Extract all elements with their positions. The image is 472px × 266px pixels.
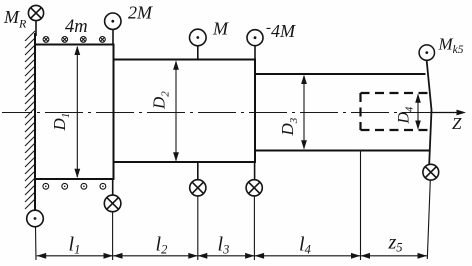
moment Mk5 symbol (circle-dot) xyxy=(419,45,434,60)
wire below -4M cross xyxy=(253,196,255,260)
wire below M cross xyxy=(197,196,199,260)
bottom dimension chain line xyxy=(37,255,427,257)
wire Mk5 lever (slanted shaft end) xyxy=(427,60,432,164)
wire -4M lever top xyxy=(254,46,256,61)
2M reaction circle-cross xyxy=(104,195,121,212)
wire -4M lever below shaft xyxy=(254,162,256,180)
dimension D1 xyxy=(74,46,80,178)
wire 2M lever top xyxy=(112,29,114,45)
svg-text:z5: z5 xyxy=(388,232,403,255)
svg-text:D1: D1 xyxy=(50,113,72,132)
distributed torque symbols (bottom row, circle-dot) xyxy=(43,183,106,189)
shaft section 5 dashed outline (D4) xyxy=(361,93,429,130)
svg-text:l3: l3 xyxy=(218,234,230,257)
svg-text:D3: D3 xyxy=(278,117,300,136)
wire 2M lever below shaft xyxy=(112,179,114,195)
dimension arrowheads xyxy=(37,253,427,259)
moment -4M symbol (circle-dot) xyxy=(247,30,263,46)
Mk5 reaction circle-cross xyxy=(423,164,439,180)
dimension D4 xyxy=(415,94,421,130)
wire M_R lever top xyxy=(35,21,37,36)
svg-text:Mk5: Mk5 xyxy=(438,35,464,57)
extension line at l4/z5 boundary xyxy=(360,151,362,261)
dimension D2 xyxy=(173,61,179,162)
svg-text:l4: l4 xyxy=(299,234,311,257)
wall line xyxy=(34,33,36,210)
moment M_R symbol (circle-cross) xyxy=(28,5,43,20)
svg-text:2M: 2M xyxy=(128,3,153,23)
svg-text:4m: 4m xyxy=(65,17,88,37)
wall hatching xyxy=(25,31,35,209)
distributed torque 4m symbols (top row, circle-cross) xyxy=(43,37,105,43)
dimension D3 xyxy=(301,75,307,150)
M reaction circle-cross xyxy=(190,180,206,196)
svg-text:MR: MR xyxy=(3,7,27,31)
svg-text:M: M xyxy=(212,19,229,39)
shaft section 3 (D3) xyxy=(255,74,431,151)
shaft section 2 (D2) xyxy=(114,60,256,163)
svg-text:-4M: -4M xyxy=(266,20,296,41)
wire below Mk5 cross xyxy=(427,180,430,259)
svg-text:D4: D4 xyxy=(396,106,416,125)
svg-text:l1: l1 xyxy=(69,234,81,257)
shaft section 1 (D1) xyxy=(35,45,114,180)
svg-text:Z: Z xyxy=(452,114,462,133)
svg-text:l2: l2 xyxy=(156,234,168,257)
moment 2M symbol (circle-dot) xyxy=(105,13,121,29)
Z axis xyxy=(430,110,466,116)
moment M symbol (circle-dot) xyxy=(190,29,207,46)
wire below bottom-left circle xyxy=(35,227,38,260)
wire M lever top xyxy=(197,46,199,61)
wire M lever below shaft xyxy=(197,162,199,180)
-4M reaction circle-cross xyxy=(246,180,262,196)
reaction couple circle-dot bottom left xyxy=(27,210,44,227)
centerline (shaft axis) xyxy=(2,112,433,114)
svg-text:D2: D2 xyxy=(150,91,172,110)
wire below 2M cross xyxy=(112,212,114,260)
